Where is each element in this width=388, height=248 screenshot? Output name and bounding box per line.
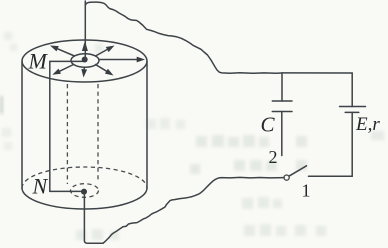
ghost bleed-through text row (right of cylinder, upper) xyxy=(196,135,307,147)
ghost smudge (top-left corner) xyxy=(4,32,103,53)
radial field arrows on top face xyxy=(50,41,145,78)
ghost smudge (left of cylinder) xyxy=(2,128,12,150)
rod M-N : bottom horizontal segment to axis xyxy=(50,190,84,192)
wire: axis lead from top dot up to image edge xyxy=(84,1,86,60)
bottom axis dot xyxy=(81,189,87,195)
wire: circuit top rail xyxy=(282,72,352,74)
switch lever xyxy=(289,166,307,176)
arrow upper-right xyxy=(96,49,109,56)
wire: capacitor bottom lead to contact 2 xyxy=(281,112,283,156)
capacitor C top plate xyxy=(272,100,292,102)
switch pivot xyxy=(284,175,289,180)
wire: bottom axis lead down from bottom dot xyxy=(84,192,103,244)
wire: torn-edge lead from bottom to switch pivot xyxy=(103,177,284,243)
cylinder bottom ellipse back arc (dashed) xyxy=(22,167,147,188)
arrow lower-left xyxy=(59,65,74,72)
svg-text:E,r: E,r xyxy=(355,114,380,135)
rod M-N : top horizontal segment xyxy=(50,60,84,62)
ghost mark (left edge) xyxy=(0,96,3,114)
svg-text:N: N xyxy=(32,174,49,199)
arrow right xyxy=(99,59,138,61)
battery E,r short thick plate xyxy=(345,111,359,113)
wire: battery top lead xyxy=(351,73,353,107)
ghost bleed-through text row (bottom left, under cylinder) xyxy=(76,229,119,240)
small top ellipse around axis dot xyxy=(71,54,99,68)
top axis dot xyxy=(82,57,88,63)
inner flux-tube dashed side right xyxy=(97,84,99,182)
svg-text:C: C xyxy=(261,113,276,137)
arrow up xyxy=(82,41,88,51)
wire: battery bottom lead xyxy=(351,112,353,176)
ghost bleed-through mark (right edge) xyxy=(371,131,384,140)
ghost bleed-through text row (below switch) xyxy=(242,197,282,209)
arrow upper-left xyxy=(57,48,75,56)
svg-text:M: M xyxy=(28,49,49,74)
inner flux-tube dashed side left xyxy=(66,84,68,184)
arrow down xyxy=(83,68,85,71)
cylinder bottom ellipse front arc (solid) xyxy=(22,188,147,209)
svg-text:2: 2 xyxy=(269,147,278,167)
wire: capacitor top lead xyxy=(281,73,283,101)
wire: torn-edge lead from top to circuit top rail xyxy=(85,2,282,73)
wire: bottom rail to contact 1 xyxy=(309,175,353,177)
ghost smudge (inside cylinder right) xyxy=(146,118,185,129)
cylinder left side xyxy=(21,62,23,189)
battery E,r long plate xyxy=(340,106,366,108)
cylinder top ellipse xyxy=(22,40,147,82)
svg-text:1: 1 xyxy=(302,181,311,201)
small bottom dashed ellipse around axis dot xyxy=(71,184,99,198)
rod M-N : vertical segment xyxy=(49,61,51,191)
ghost bleed-through text row (right of cylinder, middle) xyxy=(190,160,307,174)
ghost bleed-through text row (bottom right) xyxy=(244,224,326,236)
capacitor C bottom plate xyxy=(272,111,292,113)
cylinder right side xyxy=(146,62,148,189)
arrow lower-right xyxy=(96,65,108,72)
